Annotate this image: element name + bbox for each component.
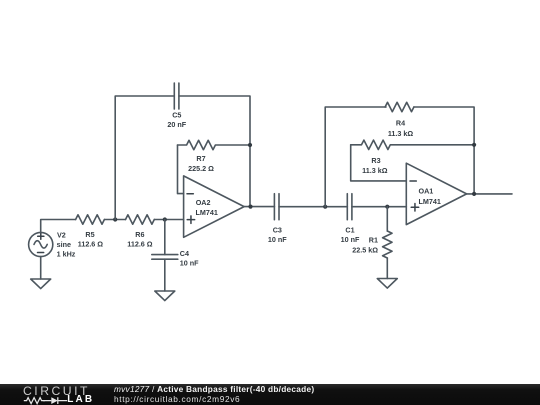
OA1 plus sign [411, 204, 419, 212]
label C3 10 nF [268, 226, 287, 244]
wire R7 left down to OA2 minus input [178, 145, 184, 194]
capacitor C4 [152, 255, 178, 260]
svg-text:112.6 Ω: 112.6 Ω [127, 239, 153, 248]
wire R5 to R6 [104, 219, 125, 221]
svg-text:R6: R6 [135, 230, 144, 239]
node R3 right junction [472, 143, 476, 147]
wire R3 left down to OA1 minus input [351, 145, 407, 181]
label R3 11.3 kohm [362, 156, 388, 175]
label R4 11.3 kohm [388, 119, 414, 139]
wire C1 to OA1 plus input [352, 206, 406, 208]
label R6 112.6 ohm [127, 230, 153, 249]
svg-text:C4: C4 [180, 249, 189, 258]
wire V2 top to R5 [41, 220, 76, 233]
label OA2 LM741 [196, 198, 218, 217]
resistor R6 [126, 215, 155, 224]
node R6/C4/OA2 junction [163, 217, 167, 221]
voltage source V2 [29, 232, 53, 256]
OA2 plus sign [187, 216, 195, 224]
svg-text:20 nF: 20 nF [167, 120, 186, 129]
svg-text:C5: C5 [172, 110, 181, 119]
wire junction up to C5 [115, 96, 174, 220]
footer bar [0, 384, 540, 405]
svg-text:OA1: OA1 [419, 187, 434, 196]
svg-text:C1: C1 [345, 226, 354, 235]
svg-text:1 kHz: 1 kHz [57, 249, 76, 258]
svg-text:10 nF: 10 nF [268, 235, 287, 244]
node C3/C1/R4-loop junction [323, 205, 327, 209]
wire R4 right down to OA1 output [414, 107, 474, 194]
label R7 225.2 ohm [188, 154, 214, 173]
label C4 10 nF [180, 249, 199, 267]
svg-text:R4: R4 [396, 119, 405, 128]
wire C5 to OA2 output vertical [179, 96, 250, 207]
label C5 20 nF [167, 110, 186, 129]
resistor R4 [385, 102, 414, 111]
svg-text:11.3 kΩ: 11.3 kΩ [362, 166, 388, 175]
resistor R1 [383, 231, 392, 258]
wire OA2 output to C3 [244, 206, 274, 208]
logo resistor-diode squiggle [0, 384, 100, 405]
svg-text:OA2: OA2 [196, 198, 211, 207]
svg-text:112.6 Ω: 112.6 Ω [78, 239, 104, 248]
ground below R1 [377, 279, 397, 289]
svg-text:225.2 Ω: 225.2 Ω [188, 164, 214, 173]
op-amp OA1 [406, 163, 466, 224]
wire V2 bottom to ground [40, 257, 42, 279]
wire junction down to R1 [386, 207, 388, 231]
logo text CIRCUIT [23, 385, 90, 397]
resistor R3 [351, 140, 474, 149]
svg-text:LM741: LM741 [419, 197, 441, 206]
wire OA1 output [467, 193, 512, 195]
footer title line [114, 385, 314, 393]
svg-text:R1: R1 [369, 235, 378, 244]
resistor R5 [76, 215, 105, 224]
resistor R7 [178, 140, 251, 149]
ground below V2 [31, 279, 51, 289]
wire junction up to R4 loop [325, 107, 386, 207]
svg-text:C3: C3 [273, 226, 282, 235]
label R5 112.6 ohm [78, 230, 104, 249]
OA2 minus sign [187, 193, 193, 195]
label C1 10 nF [341, 226, 360, 244]
svg-text:LM741: LM741 [196, 208, 218, 217]
OA1 minus sign [410, 180, 416, 182]
node C1/R1/OA1 junction [385, 205, 389, 209]
svg-text:22.5 kΩ: 22.5 kΩ [352, 246, 378, 255]
node OA2 output junction [248, 205, 252, 209]
svg-text:11.3 kΩ: 11.3 kΩ [388, 129, 414, 138]
logo text LAB [67, 395, 94, 405]
capacitor C3 [274, 194, 279, 220]
label R1 22.5 kohm [352, 235, 378, 254]
svg-text:R7: R7 [196, 154, 205, 163]
capacitor C1 [347, 194, 352, 220]
svg-text:R5: R5 [85, 230, 94, 239]
footer url line [114, 395, 240, 403]
label OA1 LM741 [419, 187, 441, 206]
svg-text:sine: sine [57, 240, 71, 249]
wire R1 to ground [386, 258, 388, 279]
svg-text:10 nF: 10 nF [341, 235, 360, 244]
wire R6 to OA2 plus input [154, 219, 183, 221]
node R5/R6/C5 junction [113, 217, 117, 221]
wire C3 to C1 [279, 206, 347, 208]
label V2 sine 1 kHz [57, 230, 76, 258]
svg-text:V2: V2 [57, 230, 66, 239]
node R7 right junction [248, 143, 252, 147]
wire C4 branch from junction [164, 220, 166, 255]
capacitor C5 [174, 83, 179, 109]
svg-text:10 nF: 10 nF [180, 258, 199, 267]
svg-text:R3: R3 [371, 156, 380, 165]
ground below C4 [155, 291, 175, 301]
wire C4 to ground [164, 259, 166, 291]
node OA1 output junction [472, 192, 476, 196]
op-amp OA2 [184, 176, 245, 237]
